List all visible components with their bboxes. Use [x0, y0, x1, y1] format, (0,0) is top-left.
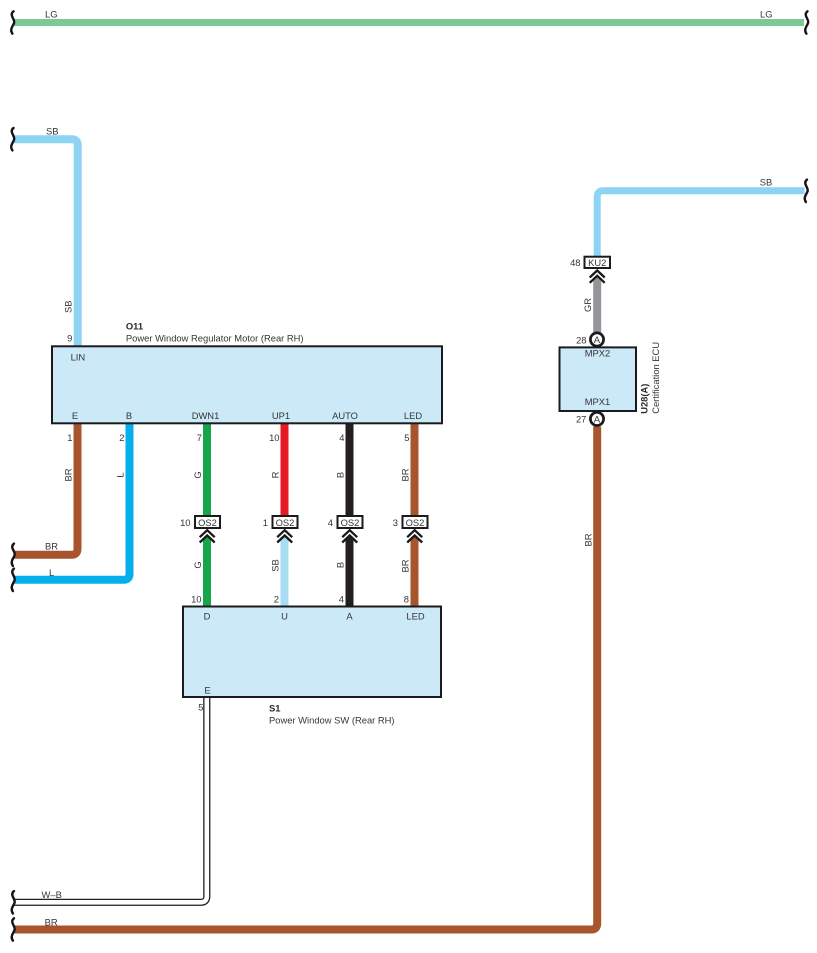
wire SB from connector to O11 pin 9: [14, 139, 78, 347]
svg-text:5: 5: [198, 702, 203, 713]
svg-text:A: A: [346, 610, 353, 621]
svg-text:E: E: [72, 410, 78, 421]
svg-text:B: B: [335, 562, 346, 568]
svg-text:KU2: KU2: [588, 257, 606, 268]
svg-text:B: B: [126, 410, 132, 421]
continuation squiggle BR bottom left: [12, 918, 15, 940]
svg-text:OS2: OS2: [276, 517, 295, 528]
continuation squiggle BR left: [12, 544, 15, 566]
svg-text:7: 7: [197, 432, 202, 443]
svg-text:28: 28: [576, 334, 586, 345]
svg-text:U: U: [281, 610, 288, 621]
component U28(A) Certification ECU: [560, 347, 637, 411]
svg-text:Power Window SW (Rear RH): Power Window SW (Rear RH): [269, 715, 395, 726]
wire BR from O11 pin 1 (E) to connector: [14, 424, 78, 555]
svg-text:OS2: OS2: [198, 517, 217, 528]
svg-text:LG: LG: [760, 9, 773, 20]
wire L from O11 pin 2 (B) to connector: [14, 424, 130, 580]
svg-text:2: 2: [119, 432, 124, 443]
svg-text:G: G: [192, 561, 203, 568]
chevron OS2 pin 1: [277, 530, 292, 542]
wire LG top horizontal: [14, 19, 804, 26]
svg-text:B: B: [335, 472, 346, 478]
svg-text:LED: LED: [406, 610, 424, 621]
node A junction 27: [576, 412, 604, 425]
chevron OS2 pin 4: [342, 530, 357, 542]
svg-text:A: A: [594, 415, 601, 426]
svg-text:E: E: [204, 685, 210, 696]
wire G from O11 pin 7 (DWN1) to S1 pin 10 (D): [203, 424, 211, 517]
svg-text:BR: BR: [45, 917, 58, 928]
svg-text:BR: BR: [400, 559, 411, 572]
svg-text:48: 48: [570, 257, 580, 268]
svg-text:5: 5: [404, 432, 409, 443]
svg-text:UP1: UP1: [272, 410, 290, 421]
svg-text:1: 1: [67, 432, 72, 443]
svg-text:OS2: OS2: [341, 517, 360, 528]
svg-text:O11: O11: [126, 321, 143, 332]
svg-text:L: L: [115, 472, 126, 477]
svg-text:MPX2: MPX2: [585, 348, 611, 359]
component O11 Power Window Regulator Motor (Rear RH): [52, 346, 442, 423]
svg-text:4: 4: [339, 432, 344, 443]
wire BR from connector to U28 pin 27: [14, 427, 597, 930]
svg-text:SB: SB: [760, 177, 773, 188]
svg-text:G: G: [192, 471, 203, 478]
svg-text:4: 4: [328, 517, 333, 528]
svg-text:R: R: [270, 471, 281, 478]
svg-text:MPX1: MPX1: [585, 396, 611, 407]
svg-text:SB: SB: [46, 126, 59, 137]
wire W-B from S1 pin 5 (E) to connector, outline: [14, 698, 207, 902]
continuation squiggle LG left: [11, 11, 14, 33]
continuation squiggle W-B left: [12, 891, 15, 913]
connector KU2 pin 48: [570, 257, 610, 269]
wire B from O11 pin 4 (AUTO) to S1 pin 4 (A): [346, 424, 354, 517]
svg-text:BR: BR: [400, 468, 411, 481]
connector OS2 pin 1: [263, 516, 298, 528]
wire SB from connector OS2 to S1 pin 2 (U): [281, 536, 289, 606]
svg-text:L: L: [49, 567, 54, 578]
connector OS2 pin 10: [180, 516, 220, 528]
chevron OS2 pin 10: [200, 530, 215, 542]
svg-text:LG: LG: [45, 9, 58, 20]
svg-text:9: 9: [67, 332, 72, 343]
continuation squiggle SB right: [805, 180, 808, 202]
svg-text:SB: SB: [63, 300, 74, 313]
svg-text:2: 2: [274, 594, 279, 605]
chevron OS2 pin 3: [407, 530, 422, 542]
svg-text:BR: BR: [63, 468, 74, 481]
wire GR from KU2 to U28 pin 28: [593, 277, 601, 334]
svg-text:D: D: [204, 610, 211, 621]
svg-text:OS2: OS2: [406, 517, 425, 528]
connector OS2 pin 3: [393, 516, 428, 528]
svg-text:A: A: [594, 335, 601, 346]
svg-text:Power Window Regulator Motor (: Power Window Regulator Motor (Rear RH): [126, 332, 304, 343]
continuation squiggle SB left: [11, 128, 14, 150]
wire BR from O11 pin 5 (LED) to S1 pin 8 (LED): [411, 424, 419, 517]
svg-text:LIN: LIN: [71, 352, 86, 363]
continuation squiggle L left: [12, 569, 15, 591]
svg-text:10: 10: [191, 594, 201, 605]
svg-text:10: 10: [180, 517, 190, 528]
svg-text:LED: LED: [404, 410, 422, 421]
svg-text:BR: BR: [45, 541, 58, 552]
svg-text:U28(A): U28(A): [639, 384, 650, 414]
chevron KU2: [590, 271, 605, 283]
svg-text:GR: GR: [582, 298, 593, 312]
svg-text:AUTO: AUTO: [332, 410, 358, 421]
svg-text:8: 8: [404, 594, 409, 605]
continuation squiggle LG right: [805, 11, 808, 33]
connector OS2 pin 4: [328, 516, 363, 528]
wire SB from connector to KU2 pin 48: [597, 191, 804, 256]
node A junction 28: [576, 333, 604, 346]
svg-text:1: 1: [263, 517, 268, 528]
wire R from O11 pin 10 (UP1) to connector OS2: [281, 424, 289, 522]
svg-text:10: 10: [269, 432, 279, 443]
svg-text:SB: SB: [270, 559, 281, 572]
svg-text:3: 3: [393, 517, 398, 528]
wire W-B core: [14, 698, 207, 902]
svg-text:Certification ECU: Certification ECU: [650, 342, 661, 414]
svg-text:4: 4: [339, 594, 344, 605]
svg-text:DWN1: DWN1: [192, 410, 220, 421]
svg-text:S1: S1: [269, 703, 280, 714]
svg-text:W–B: W–B: [42, 889, 62, 900]
svg-text:27: 27: [576, 414, 586, 425]
component S1 Power Window SW (Rear RH): [183, 607, 441, 698]
svg-text:BR: BR: [582, 533, 593, 546]
